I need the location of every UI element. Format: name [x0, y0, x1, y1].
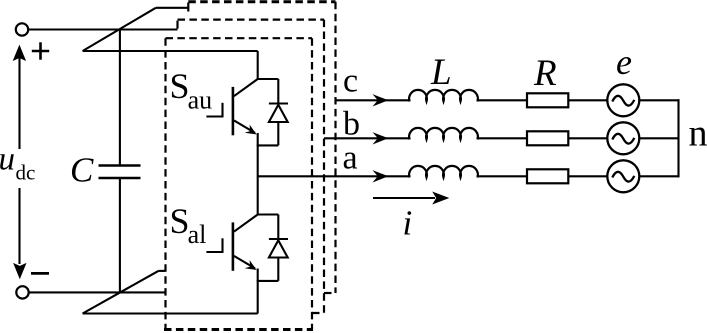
svg-text:u: u [0, 142, 15, 178]
source e phase b [607, 122, 639, 154]
arrowhead phase a [373, 170, 389, 182]
rail lower IGBT to negative bus [257, 269, 259, 314]
neutral bus n [677, 99, 679, 177]
wire source b to neutral bus [639, 137, 679, 139]
diode D_al (antiparallel, lower) [257, 215, 288, 281]
IGBT S_au (upper) [206, 79, 257, 135]
wire top bus to leg a (enters box 1) [83, 50, 258, 52]
svg-text:n: n [689, 113, 707, 155]
svg-text:S: S [170, 201, 190, 241]
phase leg box 1 (front, dashed) [164, 38, 313, 329]
wire source c to neutral bus [639, 99, 679, 101]
phase leg box 3 (back, dashed, partially hidden) [188, 2, 335, 293]
resistor R phase c [527, 93, 568, 107]
svg-text:L: L [430, 52, 452, 93]
svg-text:au: au [188, 86, 213, 115]
bottom bus split diagonal [83, 271, 159, 314]
svg-text:dc: dc [16, 161, 36, 185]
arrowhead phase b [373, 132, 389, 144]
wire phase b [324, 137, 411, 139]
svg-text:al: al [188, 220, 207, 249]
wire phase a [258, 175, 411, 177]
wire source a to neutral bus [639, 175, 679, 177]
source e phase a [607, 160, 639, 192]
voltage arrow u_dc (double headed) [13, 45, 27, 280]
terminal positive (open circle) [16, 23, 28, 35]
inductor L phase c [409, 90, 478, 102]
rail from +bus to upper IGBT collector node [257, 51, 259, 79]
wire negative bus (bottom, from - terminal) [29, 291, 166, 293]
wire top bus to leg c box [156, 7, 189, 9]
resistor R phase b [527, 131, 568, 145]
plus sign [32, 42, 49, 59]
top bus split diagonal [83, 8, 156, 51]
phase leg box 2 (middle, dashed, partially hidden) [178, 20, 325, 313]
current arrow i [373, 192, 449, 205]
svg-text:b: b [343, 106, 360, 143]
svg-text:e: e [616, 42, 632, 82]
capacitor C [99, 30, 141, 293]
rail between IGBTs (phase a node) [257, 133, 259, 215]
inductor L phase a [409, 166, 478, 178]
source e phase c [607, 84, 639, 116]
svg-text:R: R [533, 53, 557, 94]
svg-text:i: i [403, 204, 413, 243]
wire positive bus (top, from + terminal) [28, 28, 177, 30]
arrowhead phase c [373, 94, 389, 106]
wire bottom bus stub to hidden leg [158, 270, 165, 272]
svg-text:c: c [343, 63, 358, 100]
svg-text:C: C [70, 151, 94, 190]
svg-text:S: S [170, 66, 190, 106]
wire bottom bus into leg a (enters box 1) [83, 312, 258, 314]
diode D_au (antiparallel, upper) [257, 79, 288, 145]
terminal negative (open circle) [16, 286, 28, 298]
inductor L phase b [409, 128, 478, 140]
wire phase c [336, 99, 411, 101]
IGBT S_al (lower) [206, 215, 257, 271]
minus sign [31, 272, 49, 275]
resistor R phase a [527, 169, 568, 183]
svg-text:a: a [343, 139, 358, 176]
